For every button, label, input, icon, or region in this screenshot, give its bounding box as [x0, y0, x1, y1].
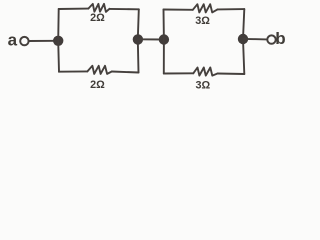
svg-text:2Ω: 2Ω — [90, 12, 105, 24]
wire bottom-right lead of right loop — [218, 73, 245, 76]
wire bottom-left lead of left loop — [59, 70, 87, 72]
svg-text:2Ω: 2Ω — [90, 79, 105, 91]
wire left vertical of left loop — [57, 9, 60, 72]
resistor R3 value label 3ohm — [195, 15, 210, 27]
resistor R1 value label 2ohm — [90, 12, 105, 24]
svg-text:b: b — [275, 29, 285, 48]
wire node C to terminal b — [243, 38, 267, 41]
wire top-right lead of right loop — [218, 8, 245, 10]
wire bottom-right lead of left loop — [112, 72, 139, 73]
svg-text:a: a — [8, 30, 18, 49]
wire right vertical of right loop — [243, 9, 244, 74]
svg-text:3Ω: 3Ω — [195, 80, 210, 92]
wire left vertical of right loop — [163, 10, 165, 74]
node a label — [8, 30, 18, 49]
resistor R3 zigzag 3ohm top — [193, 4, 218, 12]
resistor R1 zigzag 2ohm top — [88, 4, 109, 12]
resistor R4 zigzag 3ohm bottom — [193, 68, 217, 76]
node C junction dot — [238, 34, 248, 44]
terminal b (open circle) — [267, 35, 275, 43]
resistor R4 value label 3ohm — [195, 80, 210, 92]
wire right vertical of left loop — [138, 9, 139, 72]
terminal a (open circle) — [20, 37, 28, 45]
wire bottom-left lead of right loop — [164, 72, 194, 74]
node B junction dot left — [133, 34, 143, 44]
node A junction dot — [53, 36, 63, 46]
wire a to node A — [29, 40, 56, 42]
wire between middle nodes — [138, 38, 164, 40]
node b label — [275, 29, 285, 48]
svg-text:3Ω: 3Ω — [195, 15, 210, 27]
node B junction dot right — [159, 34, 169, 44]
wire top-right lead of left loop — [110, 8, 139, 10]
resistor R2 value label 2ohm — [90, 79, 105, 91]
wire top-left lead of left loop — [59, 8, 89, 10]
wire top-left lead of right loop — [164, 9, 193, 11]
resistor R2 zigzag 2ohm bottom — [87, 66, 111, 74]
